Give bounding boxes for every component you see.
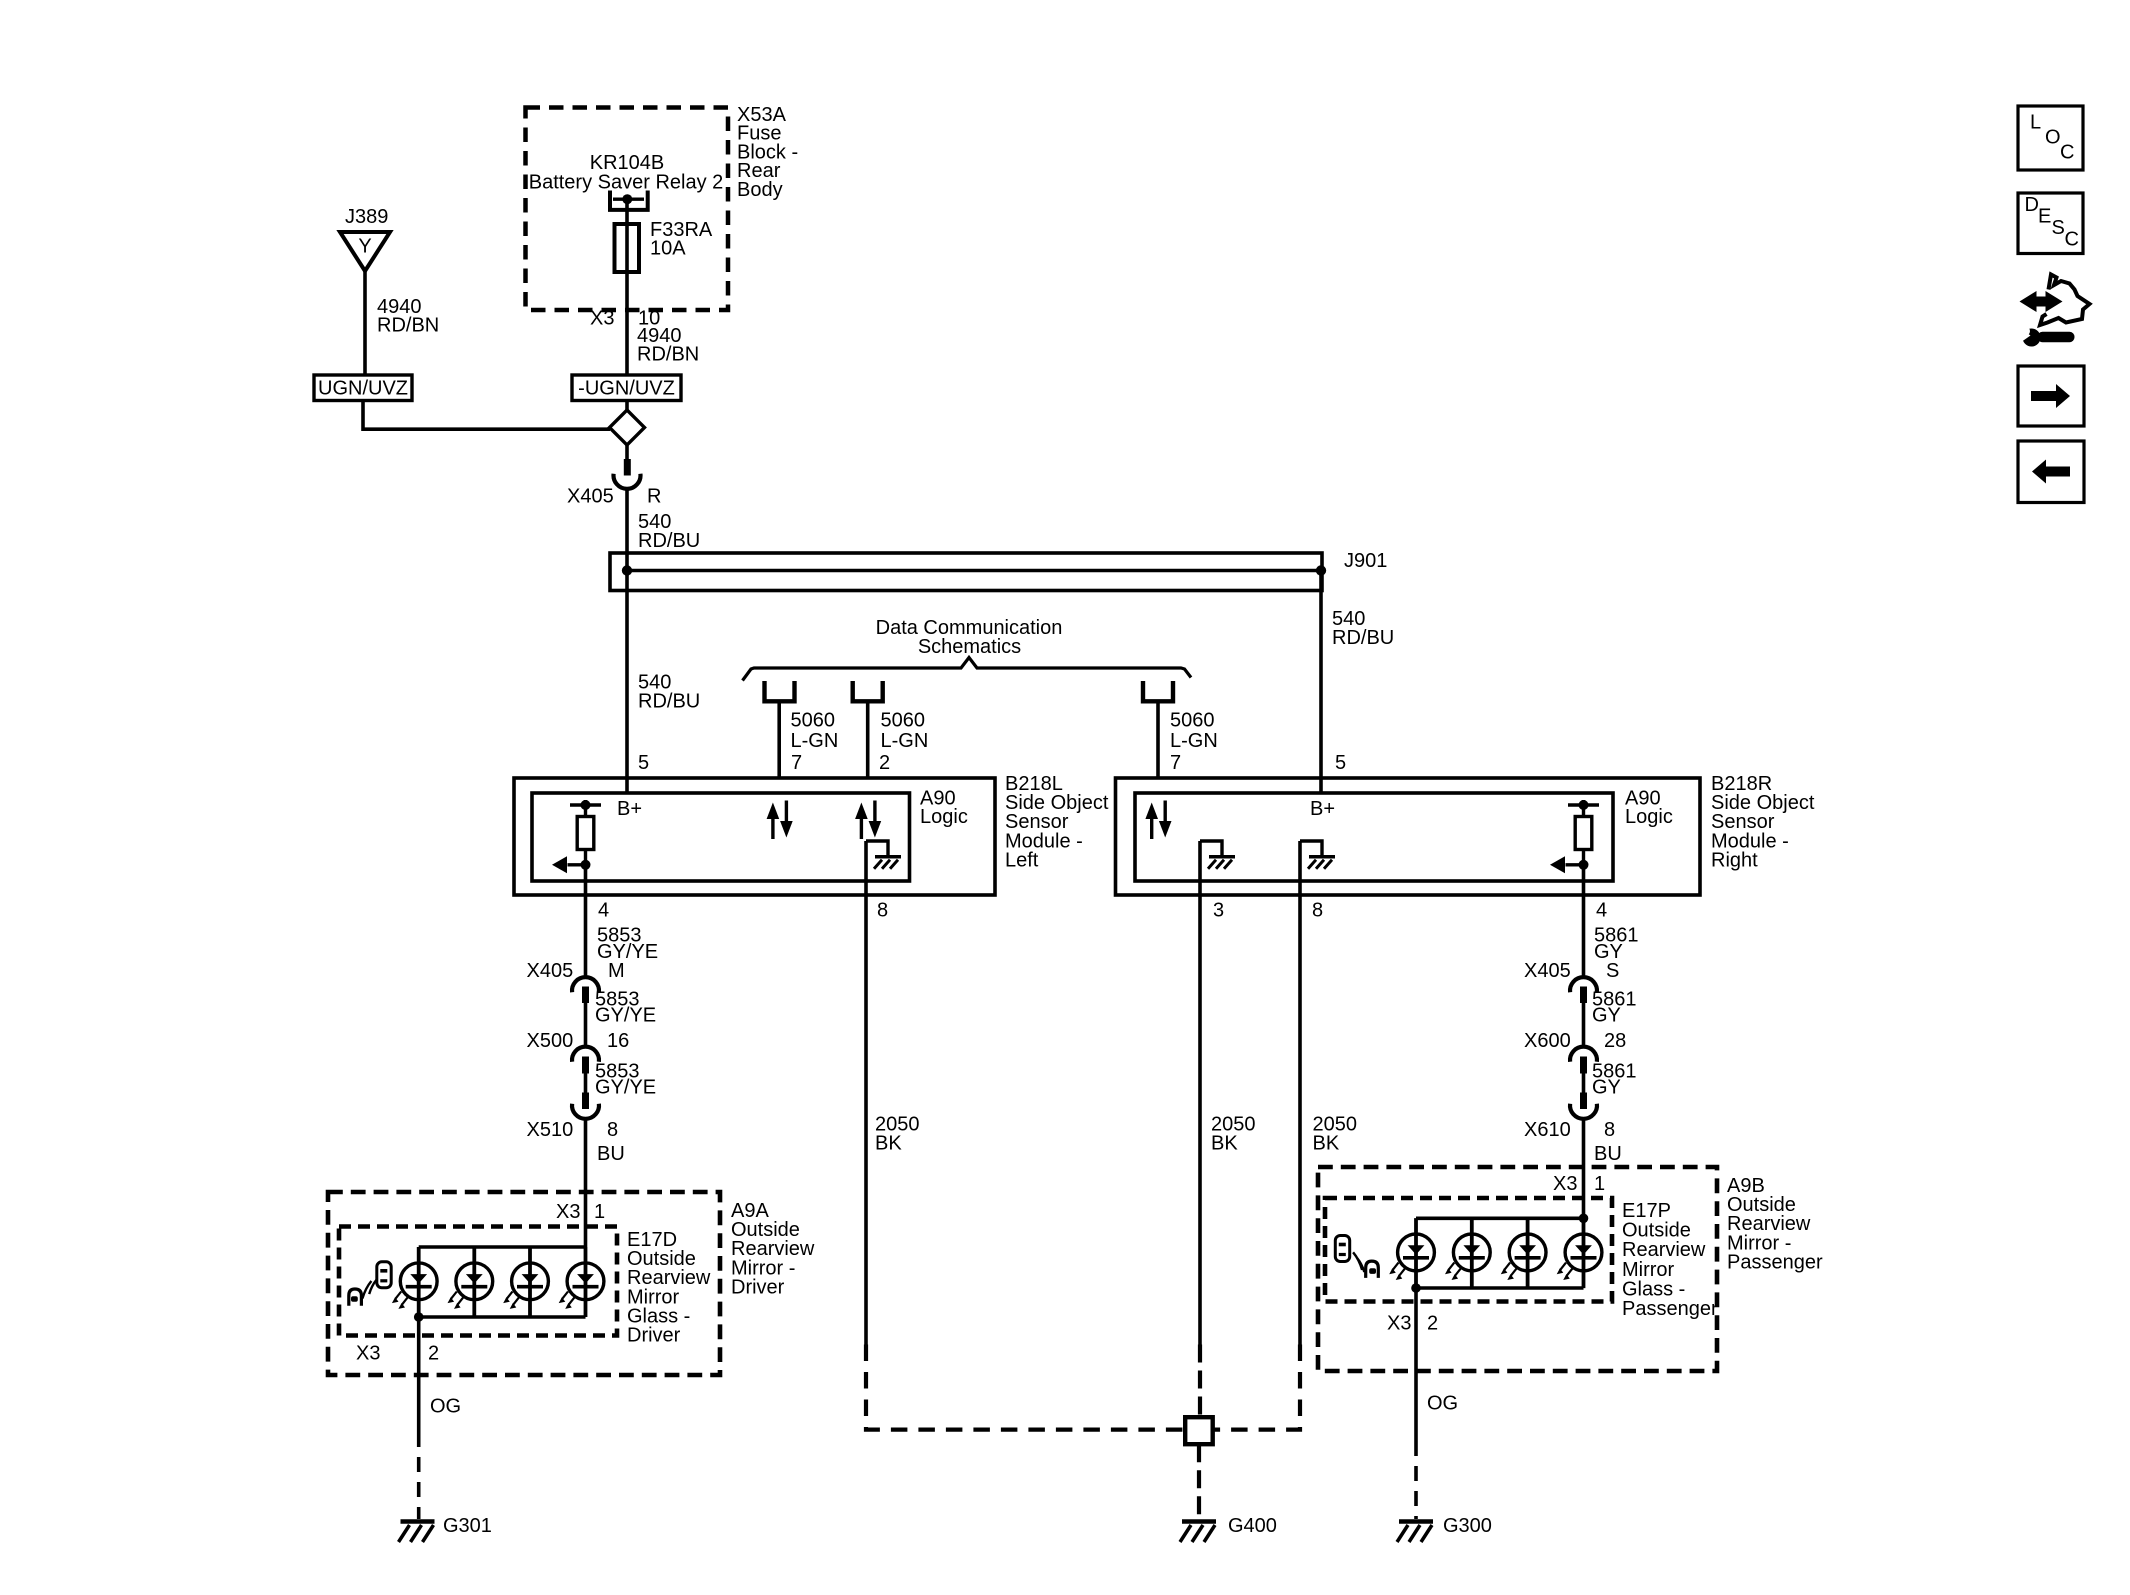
label B218L Side Object Sensor Module - Left xyxy=(1005,773,1109,871)
wire label 540 RD/BU xyxy=(1332,608,1394,649)
off-page connector (right pin 7) xyxy=(1143,681,1173,701)
svg-text:BK: BK xyxy=(875,1133,902,1155)
internal ground (pin 3, right) xyxy=(1200,841,1235,869)
svg-text:X3: X3 xyxy=(590,308,614,330)
label E17P Outside Rearview Mirror Glass - Passenger xyxy=(1622,1200,1718,1320)
svg-text:7: 7 xyxy=(791,752,802,774)
connector X405 R xyxy=(567,459,661,508)
svg-text:16: 16 xyxy=(607,1030,629,1052)
module B218L outer box xyxy=(514,778,995,895)
svg-text:BK: BK xyxy=(1313,1133,1340,1155)
label X53A Fuse Block - Rear Body xyxy=(737,104,798,201)
svg-text:28: 28 xyxy=(1604,1030,1626,1052)
wire label 5853 GY/YE xyxy=(597,925,658,964)
svg-text:S: S xyxy=(2052,217,2065,239)
internal ground (pin 8, right) xyxy=(1300,841,1335,869)
svg-text:4: 4 xyxy=(1596,900,1607,922)
svg-text:L-GN: L-GN xyxy=(881,730,929,752)
wire UGN/UVZ to diamond junction xyxy=(363,401,610,430)
svg-text:X600: X600 xyxy=(1524,1030,1571,1052)
connector X405 pin S xyxy=(1524,960,1619,1003)
wire to mirror, label BU xyxy=(1584,1119,1622,1218)
label E17D Outside Rearview Mirror Glass - Driver xyxy=(627,1229,711,1347)
wire label 5861 GY xyxy=(1592,989,1637,1027)
connector X405 pin M xyxy=(527,960,625,1003)
svg-text:G300: G300 xyxy=(1443,1515,1492,1537)
wire label 540 RD/BU xyxy=(638,511,700,552)
internal resistor w/ output arrow (left) xyxy=(552,800,601,873)
module B218R inner box A90 Logic xyxy=(1135,788,1673,882)
svg-text:L-GN: L-GN xyxy=(791,730,839,752)
label A9B Outside Rearview Mirror - Passenger xyxy=(1727,1175,1823,1273)
wire label 540 RD/BU xyxy=(638,671,700,712)
svg-text:BK: BK xyxy=(1211,1133,1238,1155)
svg-text:X510: X510 xyxy=(527,1119,574,1141)
svg-text:OG: OG xyxy=(430,1396,461,1418)
comm arrows pin 7 xyxy=(767,801,793,840)
wire label 5060 L-GN xyxy=(1170,710,1218,753)
svg-text:Passenger: Passenger xyxy=(1727,1251,1823,1273)
connector X500 pin 16 / X510 pin 8 xyxy=(527,1030,630,1141)
LED 4 xyxy=(559,1247,604,1317)
junction node right xyxy=(1316,565,1326,575)
connector X3 pin 2 xyxy=(356,1343,439,1365)
wire dashed to G400 xyxy=(1197,1444,1201,1519)
off-page connector (pin 7) xyxy=(765,681,795,701)
svg-text:3: 3 xyxy=(1213,900,1224,922)
svg-text:RD/BN: RD/BN xyxy=(377,315,439,337)
LED 1 xyxy=(392,1247,437,1317)
svg-text:C: C xyxy=(2060,142,2074,164)
svg-text:Logic: Logic xyxy=(1625,806,1673,828)
wire dashed to G300 xyxy=(1414,1441,1418,1519)
nav icon vehicle double-arrow wrench xyxy=(2018,275,2090,347)
wire 5060 to pin 7 xyxy=(777,703,781,778)
svg-text:7: 7 xyxy=(1170,752,1181,774)
ground G300 xyxy=(1397,1515,1492,1542)
svg-text:X405: X405 xyxy=(567,486,614,508)
off-page connector (pin 2) xyxy=(853,681,883,701)
svg-text:X610: X610 xyxy=(1524,1119,1571,1141)
relay KR104B Battery Saver Relay 2 xyxy=(529,152,724,210)
LED 1 xyxy=(1389,1218,1434,1288)
wire pin 3 (right) 2050 BK xyxy=(1198,841,1202,1345)
svg-text:R: R xyxy=(647,486,661,508)
svg-text:RD/BN: RD/BN xyxy=(637,344,699,366)
splice diamond junction xyxy=(610,410,645,445)
svg-text:C: C xyxy=(2065,229,2079,251)
svg-text:5: 5 xyxy=(1335,752,1346,774)
svg-text:BU: BU xyxy=(597,1143,625,1165)
svg-text:8: 8 xyxy=(877,900,888,922)
wire J901 to B218R pin 5 xyxy=(1319,571,1323,794)
svg-text:OG: OG xyxy=(1427,1393,1458,1415)
svg-text:10A: 10A xyxy=(650,238,686,260)
LED bus bottom (passenger) xyxy=(1416,1286,1584,1290)
svg-text:1: 1 xyxy=(1594,1173,1605,1195)
svg-text:5: 5 xyxy=(638,752,649,774)
svg-text:L: L xyxy=(2030,112,2041,134)
connector X3 pin 2 (passenger) xyxy=(1387,1313,1438,1335)
svg-text:8: 8 xyxy=(607,1119,618,1141)
wire X3 pin 2 (driver) xyxy=(417,1317,421,1432)
wire label 5861 GY xyxy=(1592,1061,1637,1099)
LED 3 xyxy=(1501,1218,1546,1288)
wire dashed (middle 2050) xyxy=(1198,1345,1202,1418)
LED 3 xyxy=(503,1247,548,1317)
svg-text:S: S xyxy=(1606,960,1619,982)
label B218R Side Object Sensor Module - Right xyxy=(1711,773,1815,871)
ground G301 xyxy=(399,1515,492,1542)
wire pin 4 (left) xyxy=(584,865,588,977)
svg-text:Logic: Logic xyxy=(920,806,968,828)
label Data Communication Schematics xyxy=(876,617,1063,658)
wire pin 8 (right) 2050 BK xyxy=(1298,841,1302,1345)
svg-text:X3: X3 xyxy=(1387,1313,1411,1335)
svg-text:RD/BU: RD/BU xyxy=(638,530,700,552)
svg-text:GY: GY xyxy=(1592,1077,1621,1099)
mirror glass E17D (dashed) xyxy=(339,1227,617,1336)
wire J389 to splice xyxy=(363,271,367,375)
side object detect icon (passenger) xyxy=(1335,1236,1378,1278)
wire X405 to J901 xyxy=(625,489,629,571)
svg-text:X500: X500 xyxy=(527,1030,574,1052)
svg-text:5060: 5060 xyxy=(1170,710,1215,732)
wire label 5853 GY/YE xyxy=(595,1061,656,1099)
nav box LOC xyxy=(2018,106,2083,170)
wire label 2050 BK (right) xyxy=(1313,1113,1358,1154)
svg-text:X405: X405 xyxy=(1524,960,1571,982)
wire between connectors xyxy=(1582,1074,1586,1093)
ground G400 xyxy=(1180,1515,1277,1542)
wire label 4940 RD/BN xyxy=(377,296,439,337)
wire dashed to G301 xyxy=(417,1432,421,1519)
connector X3 pin 10 xyxy=(590,308,660,330)
wire pin 4 (right) xyxy=(1582,865,1586,977)
svg-text:GY/YE: GY/YE xyxy=(597,941,658,963)
wire label 5060 L-GN xyxy=(791,710,839,753)
wire xyxy=(1582,1003,1586,1047)
svg-text:5060: 5060 xyxy=(791,710,836,732)
side object detect icon (driver) xyxy=(349,1262,391,1306)
svg-text:Right: Right xyxy=(1711,849,1758,871)
svg-text:X3: X3 xyxy=(356,1343,380,1365)
LED 2 xyxy=(1445,1218,1490,1288)
LED bus top (driver) xyxy=(419,1245,586,1249)
mirror housing A9A (dashed) xyxy=(328,1192,720,1375)
module B218R outer box xyxy=(1116,778,1701,895)
comm arrows pin 7 (right) xyxy=(1145,801,1171,840)
connector X600 pin 28 / X610 pin 8 xyxy=(1524,1030,1626,1141)
comm arrows pin 2 xyxy=(855,801,881,840)
wire J901 to B218L pin 5 xyxy=(625,571,629,794)
svg-text:4: 4 xyxy=(598,900,609,922)
wire bus inside J901 xyxy=(627,569,1321,573)
svg-text:J389: J389 xyxy=(345,206,388,228)
wire between connectors xyxy=(584,1074,588,1093)
wire pin 8 (left) 2050 BK xyxy=(864,841,868,1345)
svg-text:2: 2 xyxy=(879,752,890,774)
junction node xyxy=(1579,1214,1589,1224)
wire label 5060 L-GN xyxy=(881,710,929,753)
wire X3 pin 2 (passenger) xyxy=(1414,1288,1418,1441)
junction box splice xyxy=(1185,1417,1213,1444)
svg-text:2: 2 xyxy=(1427,1313,1438,1335)
internal resistor w/ output arrow (right) xyxy=(1550,800,1599,873)
net UGN/UVZ xyxy=(314,375,412,401)
wire label 5853 GY/YE xyxy=(595,989,656,1027)
svg-text:GY: GY xyxy=(1592,1005,1621,1027)
wire 5060 to pin 2 xyxy=(866,703,870,778)
label A9A Outside Rearview Mirror - Driver xyxy=(731,1200,815,1298)
svg-text:X405: X405 xyxy=(527,960,574,982)
wire xyxy=(584,1003,588,1047)
junction node left xyxy=(622,565,632,575)
wire to mirror, label BU xyxy=(586,1119,625,1247)
svg-text:Schematics: Schematics xyxy=(918,636,1021,658)
fuse block X53A (dashed) xyxy=(526,108,729,311)
wire diamond to X405 xyxy=(625,445,629,460)
svg-text:E: E xyxy=(2038,206,2051,228)
wire label 4940 RD/BN xyxy=(637,325,699,366)
svg-text:Battery Saver Relay 2: Battery Saver Relay 2 xyxy=(529,172,724,194)
svg-text:8: 8 xyxy=(1604,1119,1615,1141)
svg-text:Driver: Driver xyxy=(627,1325,681,1347)
connector X3 pin 1 (passenger) xyxy=(1553,1173,1605,1195)
svg-text:GY/YE: GY/YE xyxy=(595,1077,656,1099)
mirror housing A9B (dashed) xyxy=(1318,1167,1717,1371)
svg-text:-UGN/UVZ: -UGN/UVZ xyxy=(578,378,675,400)
svg-text:B+: B+ xyxy=(1310,798,1335,820)
svg-text:L-GN: L-GN xyxy=(1170,730,1218,752)
module B218L inner box A90 Logic xyxy=(532,788,968,882)
svg-text:M: M xyxy=(608,960,625,982)
internal ground (pin 8, left) xyxy=(866,841,901,869)
connector X3 pin 1 (driver) xyxy=(556,1201,605,1223)
junction block J901 xyxy=(610,550,1387,591)
svg-text:Left: Left xyxy=(1005,849,1039,871)
svg-text:1: 1 xyxy=(594,1201,605,1223)
svg-text:G400: G400 xyxy=(1228,1515,1277,1537)
svg-text:5060: 5060 xyxy=(881,710,926,732)
wire label 5861 GY xyxy=(1594,925,1639,964)
svg-text:O: O xyxy=(2045,127,2061,149)
svg-text:Driver: Driver xyxy=(731,1276,785,1298)
svg-text:RD/BU: RD/BU xyxy=(1332,627,1394,649)
LED bus bottom (driver) xyxy=(419,1315,586,1319)
svg-text:UGN/UVZ: UGN/UVZ xyxy=(318,378,408,400)
svg-text:Passenger: Passenger xyxy=(1622,1298,1718,1320)
LED bus top (passenger) xyxy=(1416,1217,1584,1221)
svg-text:GY/YE: GY/YE xyxy=(595,1005,656,1027)
wire dashed (left 2050) xyxy=(866,1345,1185,1430)
nav box DESC xyxy=(2018,193,2083,254)
wire dashed (right 2050) xyxy=(1213,1345,1300,1430)
svg-text:B+: B+ xyxy=(617,798,642,820)
svg-text:2: 2 xyxy=(428,1343,439,1365)
net -UGN/UVZ xyxy=(572,375,681,401)
svg-text:X3: X3 xyxy=(1553,1173,1577,1195)
svg-text:BU: BU xyxy=(1594,1143,1622,1165)
svg-text:D: D xyxy=(2025,194,2039,216)
svg-text:Y: Y xyxy=(358,236,371,258)
junction node xyxy=(1411,1283,1421,1293)
mirror glass E17P (dashed) xyxy=(1325,1198,1612,1302)
wire relay through fuse xyxy=(625,199,629,375)
LED 4 xyxy=(1557,1218,1602,1288)
splice pack J389 xyxy=(340,206,390,271)
junction node xyxy=(414,1312,424,1322)
nav box prev arrow xyxy=(2018,441,2084,503)
wire 5060 to right pin 7 xyxy=(1156,703,1160,778)
svg-text:G301: G301 xyxy=(443,1515,492,1537)
svg-text:8: 8 xyxy=(1312,900,1323,922)
nav box next arrow xyxy=(2018,366,2084,426)
wire label 2050 BK (middle) xyxy=(1211,1113,1256,1154)
svg-text:J901: J901 xyxy=(1344,550,1387,572)
wire label 2050 BK (left) xyxy=(875,1113,920,1154)
fuse F33RA 10A xyxy=(615,219,713,272)
svg-text:RD/BU: RD/BU xyxy=(638,691,700,713)
svg-text:Body: Body xyxy=(737,179,783,201)
LED 2 xyxy=(448,1247,493,1317)
brace xyxy=(743,658,1192,681)
wire to diamond xyxy=(625,401,629,411)
svg-text:X3: X3 xyxy=(556,1201,580,1223)
